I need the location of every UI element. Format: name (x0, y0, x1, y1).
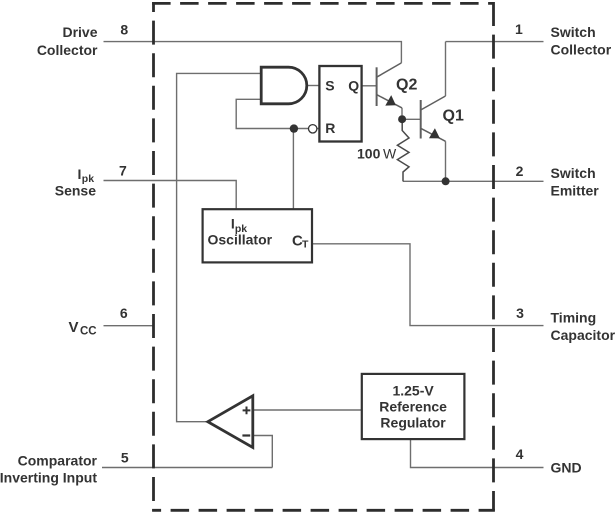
svg-text:T: T (302, 238, 309, 250)
svg-text:W: W (383, 145, 397, 161)
svg-text:GND: GND (551, 459, 582, 475)
wire Q1 emitter drop (445, 141, 447, 181)
IC boundary dashed border top (152, 2, 493, 5)
wire Q output to Q2 base (362, 85, 377, 87)
svg-text:1: 1 (515, 21, 523, 37)
SR latch U1 (319, 66, 361, 142)
wire node to Q1 base (404, 118, 421, 120)
svg-text:Switch: Switch (551, 165, 596, 181)
comparator minus sign (242, 434, 250, 436)
svg-text:Emitter: Emitter (551, 183, 600, 199)
transistor Q2 (377, 63, 402, 108)
IC boundary dashed border right (492, 2, 495, 511)
svg-text:8: 8 (120, 21, 128, 37)
svg-text:Sense: Sense (55, 183, 96, 199)
wire comparator minus input (253, 436, 272, 468)
svg-text:Comparator: Comparator (18, 453, 98, 469)
svg-text:6: 6 (120, 305, 128, 321)
wire pin5 lead (102, 467, 272, 469)
svg-text:Drive: Drive (62, 24, 97, 40)
IC boundary dashed border bottom (152, 509, 495, 512)
resistor 100 ohm (397, 121, 409, 181)
transistor Q1 (421, 96, 446, 141)
node junction R line / oscillator (290, 124, 298, 132)
svg-text:5: 5 (121, 450, 129, 466)
svg-text:3: 3 (516, 305, 524, 321)
svg-text:CC: CC (80, 325, 97, 337)
svg-text:I: I (78, 166, 82, 182)
svg-text:4: 4 (516, 446, 524, 462)
wire pin1 lead (446, 41, 544, 43)
comparator (208, 396, 253, 448)
inverter bubble at R input (309, 125, 317, 133)
wire pin8 lead to Q2 collector (104, 42, 402, 63)
svg-text:Reference: Reference (379, 398, 447, 414)
svg-text:Inverting Input: Inverting Input (0, 469, 97, 485)
svg-text:Switch: Switch (551, 24, 596, 40)
wire AND output to S input (307, 85, 320, 87)
svg-text:Q1: Q1 (443, 108, 464, 125)
svg-text:Regulator: Regulator (380, 414, 446, 430)
wire pin2 switch emitter line (403, 180, 544, 182)
svg-text:2: 2 (516, 163, 524, 179)
svg-text:R: R (325, 120, 335, 136)
wire comparator output feedback to AND input 1 (177, 73, 261, 421)
svg-text:Collector: Collector (37, 42, 98, 58)
wire Q1 collector riser (445, 42, 447, 96)
wire Q2 emitter drop to node (401, 108, 403, 116)
1.25-V reference regulator block (362, 374, 465, 439)
wire bubble to R input (317, 128, 320, 130)
wire comparator plus input from regulator (253, 409, 362, 411)
svg-text:1.25-V: 1.25-V (392, 382, 434, 398)
svg-text:S: S (325, 77, 334, 93)
svg-text:100: 100 (357, 145, 381, 161)
wire CT output to pin3 (313, 244, 544, 326)
svg-text:V: V (69, 319, 79, 336)
oscillator block (203, 209, 312, 262)
IC boundary dashed border left (152, 2, 155, 511)
wire regulator to pin4 GND (411, 439, 544, 468)
svg-text:7: 7 (119, 163, 127, 179)
wire pin7 lead to oscillator (104, 181, 237, 210)
node junction Q2 emitter / Q1 base / resistor (398, 115, 406, 123)
svg-text:Timing: Timing (551, 309, 597, 325)
wire junction to oscillator top (292, 129, 294, 210)
node junction on switch emitter line (442, 177, 450, 185)
svg-text:Oscillator: Oscillator (208, 231, 273, 247)
comparator plus sign (243, 407, 251, 415)
svg-text:Q: Q (348, 77, 359, 93)
svg-text:Capacitor: Capacitor (551, 327, 615, 343)
svg-text:Q2: Q2 (396, 76, 417, 93)
svg-text:Collector: Collector (551, 42, 612, 58)
wire AND input 2 to R line (236, 99, 308, 128)
wire pin6 stub (104, 325, 155, 327)
AND gate (261, 67, 307, 104)
